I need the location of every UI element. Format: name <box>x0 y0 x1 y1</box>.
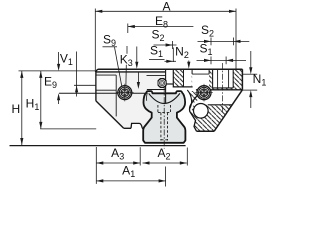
dim S2 left tick <box>172 41 174 49</box>
body underside line <box>196 89 242 91</box>
centre cavity bottom <box>165 83 173 85</box>
dim A1 label <box>122 164 135 180</box>
svg-text:S9: S9 <box>103 33 116 49</box>
dim E8 line <box>128 25 194 28</box>
dim S1 left arrow line <box>165 60 177 63</box>
section boundary edge <box>165 69 167 103</box>
dim A2 line <box>143 161 187 164</box>
mounting hole thread walls <box>218 69 229 88</box>
nipple boss top line <box>147 75 166 77</box>
dim H1 label <box>26 96 40 112</box>
dim E8 extension line <box>127 24 129 34</box>
carriage leg section band (hatched) <box>191 105 232 131</box>
lubrication nipple <box>158 78 166 87</box>
mounting hole bore walls <box>213 69 234 88</box>
dim A2 label <box>157 146 170 162</box>
svg-text:S2: S2 <box>151 28 164 44</box>
nipple boss bottom line <box>147 89 166 91</box>
screw pocket right edge <box>208 69 210 74</box>
plate pocket interior <box>97 76 116 90</box>
arrow at plate right <box>137 72 140 90</box>
K3 leader <box>125 65 127 86</box>
svg-text:S2: S2 <box>201 23 214 39</box>
plate top edge <box>96 71 166 73</box>
svg-text:N2: N2 <box>175 45 189 61</box>
plate groove line <box>59 92 147 94</box>
A1 centre extension line <box>165 167 167 187</box>
rail bolt hole bottom (dashed) <box>161 139 168 141</box>
guide rail profile <box>143 91 185 143</box>
bottom left extension line <box>95 147 97 184</box>
plate port line <box>74 84 96 86</box>
body corner chamfer <box>214 90 242 131</box>
hatch pattern def <box>0 0 1 1</box>
svg-text:S1: S1 <box>150 44 163 60</box>
right end-plate screw head <box>195 84 213 102</box>
dim E9 label <box>44 74 57 90</box>
label K3 <box>120 46 133 68</box>
svg-text:A1: A1 <box>122 164 135 180</box>
dim S2 right label <box>201 23 214 39</box>
screw pocket ceiling <box>192 73 209 75</box>
body bottom edge <box>197 130 215 132</box>
A2 right extension line <box>186 148 188 166</box>
dim S1 right ticks <box>211 57 226 65</box>
dim S1 right line <box>197 59 247 62</box>
plate bottom step <box>131 123 143 129</box>
rail top concave arc <box>149 93 180 103</box>
race corner hatch <box>189 91 200 103</box>
dim E9 line <box>75 52 78 97</box>
screw pocket recess (white) <box>192 70 209 90</box>
dim A1 line <box>96 179 165 182</box>
dim A3 label <box>111 146 124 162</box>
leg inner race contour <box>190 96 197 131</box>
mounting hole cavity (white) <box>213 69 234 88</box>
plate pocket top line <box>96 74 116 76</box>
carriage body section top plate (hatched) <box>165 69 242 90</box>
mounting hole centreline <box>221 63 223 113</box>
dim A3 line <box>96 161 140 164</box>
dim A left extension line <box>94 9 96 72</box>
mounting surface line <box>10 145 186 147</box>
dim H1 line <box>39 71 42 129</box>
dim S2 left line <box>154 43 177 46</box>
dim V1 label <box>60 51 73 67</box>
lube duct right wall <box>191 69 193 74</box>
dim V1 upper arrow <box>57 52 60 71</box>
plate left edge <box>95 72 97 101</box>
race outer contour <box>187 90 191 109</box>
mounting hole bottom <box>213 87 234 89</box>
rail hidden bolt hole (dashed) <box>161 113 168 141</box>
dim N1 upper arrow <box>249 51 252 74</box>
dim N1 upper ref line <box>242 73 257 75</box>
body right edge <box>241 69 243 90</box>
plate pocket bottom line <box>96 89 116 91</box>
plate corner chamfer <box>96 101 124 128</box>
ball return bore <box>194 104 209 119</box>
lube duct slot (white) <box>184 69 192 87</box>
S9 screw head <box>116 84 134 102</box>
dim S1 left underline <box>149 59 165 61</box>
svg-text:A3: A3 <box>111 146 124 162</box>
plate lip line beside rail <box>146 93 149 101</box>
dim S2 left label <box>151 28 164 44</box>
svg-text:H1: H1 <box>26 96 40 112</box>
top extension line <box>19 70 96 72</box>
label S9 <box>103 33 118 49</box>
dim H label <box>11 102 20 116</box>
rail hidden counterbore (dashed) <box>158 105 171 113</box>
S9 leader <box>115 47 122 86</box>
A3/A2 extension line <box>139 147 141 165</box>
dim N1 lower arrow <box>249 90 252 108</box>
dim S1 right label <box>199 42 212 58</box>
dim S1 left label <box>150 44 163 60</box>
dim A label <box>162 0 170 14</box>
body top edge <box>96 69 243 72</box>
dim N1 label <box>253 72 267 88</box>
svg-text:E9: E9 <box>44 74 57 90</box>
side pocket bottom edge <box>208 104 233 106</box>
dim N2 arrow <box>187 61 190 69</box>
dim E8 label <box>155 14 168 30</box>
dim A line <box>95 10 236 13</box>
rail centreline <box>163 86 165 148</box>
dim A right extension line <box>235 9 237 70</box>
carriage end plate face (view half) <box>96 72 165 128</box>
svg-text:S1: S1 <box>199 42 212 58</box>
lube duct left wall <box>183 69 185 87</box>
centre tapped hole cavity (white) <box>166 69 173 84</box>
dim S2 right ticks <box>211 38 234 46</box>
centre cavity wall <box>172 69 174 87</box>
carriage bottom extension line <box>40 128 96 130</box>
dim S1 left extension <box>172 48 174 63</box>
dim N2 label <box>175 45 189 61</box>
dim N1 lower ref line <box>242 89 257 91</box>
dim V1 lower arrow <box>57 93 60 104</box>
dim H line <box>20 71 23 145</box>
plate pocket side line <box>115 75 117 116</box>
svg-text:V1: V1 <box>60 51 73 67</box>
dim S2 right line <box>198 40 250 43</box>
svg-text:H: H <box>11 102 20 116</box>
arrow onto body top <box>135 47 138 69</box>
plate bottom edge <box>124 127 131 129</box>
saddle underside line <box>173 86 192 88</box>
